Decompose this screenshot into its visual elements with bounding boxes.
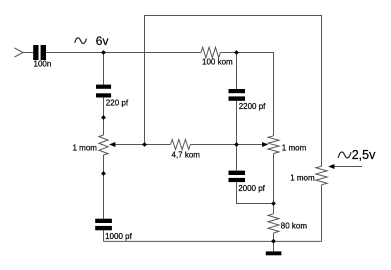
node P1 bottom terminal — [101, 171, 106, 176]
wire R1 to top-right corner then down to P2 — [220, 53, 273, 136]
bottom rail wire — [104, 240, 322, 242]
svg-text:100n: 100n — [34, 59, 52, 68]
AC source symbol tilde — [75, 38, 87, 44]
P1 wiper arrow — [109, 142, 115, 147]
svg-text:220 pf: 220 pf — [106, 99, 129, 108]
wire C1 to resistor R1 (through node A) — [46, 52, 201, 54]
svg-text:1000 pf: 1000 pf — [105, 232, 132, 241]
svg-text:2,5v: 2,5v — [352, 148, 376, 162]
capacitor C4 2000 pf — [229, 171, 246, 175]
node A — [101, 50, 106, 55]
svg-text:1 mom: 1 mom — [73, 144, 98, 153]
svg-text:6v: 6v — [96, 34, 109, 48]
potentiometer P3 1 mom (output) — [316, 166, 327, 185]
node D — [142, 142, 147, 147]
AC output symbol tilde — [338, 152, 351, 158]
input terminal — [15, 48, 24, 57]
svg-text:1 mom: 1 mom — [290, 174, 315, 183]
ground stub — [273, 241, 275, 251]
wire C5 to bottom rail — [103, 230, 105, 241]
node B — [234, 50, 239, 55]
wire C3 to potentiometer P1 — [103, 98, 105, 136]
svg-text:2000 pf: 2000 pf — [238, 184, 265, 193]
wire node E down to C4 — [236, 145, 238, 171]
node F — [271, 201, 276, 206]
svg-text:4,7 kom: 4,7 kom — [172, 151, 201, 160]
wire node A down to C3 — [103, 53, 105, 85]
output wire — [334, 166, 362, 168]
node G — [271, 239, 276, 244]
P2 wiper arrow — [262, 142, 268, 147]
wire P3 to bottom rail — [321, 185, 323, 242]
wire R4 to bottom rail — [273, 233, 275, 241]
wire P2 to resistor R4 (through node F) — [273, 154, 275, 214]
node C P1 top terminal — [101, 115, 106, 120]
ground bar — [266, 251, 282, 255]
capacitor C1 100n — [33, 45, 38, 60]
resistor R2 4,7 kom — [171, 140, 191, 150]
wire P1 bottom to C5 — [103, 155, 105, 219]
wiper bus wire right segment — [190, 144, 262, 146]
node E — [234, 142, 239, 147]
capacitor C3 220 pf — [96, 85, 111, 89]
wiper bus wire left segment — [115, 144, 170, 146]
resistor R1 100 kom — [201, 47, 220, 58]
svg-text:80 kom: 80 kom — [281, 222, 308, 231]
svg-text:2200 pf: 2200 pf — [239, 102, 266, 111]
P3 wiper arrow — [328, 164, 334, 169]
wire node B down to C2 — [236, 53, 238, 90]
feedback loop wire — [145, 16, 322, 167]
potentiometer P1 1 mom (left) — [99, 135, 108, 155]
svg-text:100 kom: 100 kom — [202, 58, 233, 67]
wire input to C1 — [23, 52, 33, 54]
resistor R4 80 kom — [268, 214, 279, 233]
wire C2 to node E — [236, 101, 238, 145]
potentiometer P2 1 mom (right) — [268, 136, 279, 154]
capacitor C5 1000 pf — [95, 219, 112, 223]
capacitor C2 2200 pf — [229, 89, 246, 93]
wire C4 to node F — [237, 182, 274, 203]
svg-text:1 mom: 1 mom — [282, 144, 307, 153]
